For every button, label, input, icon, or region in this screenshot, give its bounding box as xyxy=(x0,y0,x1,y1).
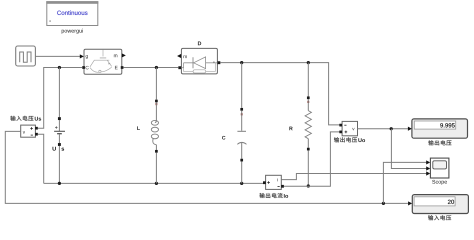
wire R bottom xyxy=(307,150,309,186)
resistor R xyxy=(305,63,311,151)
wire diode to output rail and VM Uo xyxy=(220,63,340,125)
node C-bus xyxy=(240,182,243,185)
label L xyxy=(137,126,140,130)
scope block xyxy=(430,158,449,178)
wire IGBT emitter to diode xyxy=(124,67,179,69)
label R xyxy=(289,127,292,131)
node battery-bus xyxy=(58,182,61,185)
label input-voltage Us xyxy=(10,116,15,121)
IGBT E port xyxy=(121,66,124,69)
label D xyxy=(198,41,201,45)
wire IGBT collector to Us+ and voltmeter xyxy=(38,68,82,129)
wire pulse generator to IGBT gate xyxy=(35,55,80,57)
node R Io-minus junction xyxy=(307,184,310,187)
diode cathode port xyxy=(217,61,220,64)
wire battery top xyxy=(58,68,60,118)
diode anode port xyxy=(178,66,181,69)
wire L top xyxy=(155,68,157,100)
label C xyxy=(222,136,225,140)
wire Io minus to R bottom and VM Uo minus xyxy=(284,132,341,186)
wire Us signal to display and scope xyxy=(5,131,408,203)
label display input-voltage xyxy=(428,215,433,220)
powergui block xyxy=(46,1,98,25)
pulse generator block xyxy=(16,46,36,66)
capacitor C xyxy=(237,63,246,162)
wire battery bottom xyxy=(58,146,60,184)
wire Uo signal xyxy=(358,128,409,130)
label display output-voltage xyxy=(428,140,433,145)
wire C bottom xyxy=(241,162,243,184)
diode m output port xyxy=(177,54,181,58)
IGBT m output port xyxy=(122,53,126,57)
wire VMus minus to ground bus xyxy=(38,134,44,183)
node Uo signal branch xyxy=(390,127,393,130)
wire Io signal to scope xyxy=(281,174,426,180)
inductor L xyxy=(151,100,158,153)
wire L bottom xyxy=(155,153,157,184)
node Us signal branch xyxy=(382,202,385,205)
node L-bus xyxy=(155,182,158,185)
node battery junction xyxy=(58,66,61,69)
DC voltage source Us xyxy=(54,117,65,146)
display output voltage 9.995 xyxy=(412,119,468,138)
powergui label xyxy=(62,29,83,34)
label Us xyxy=(53,147,56,151)
node switch node xyxy=(155,66,158,69)
node R branch xyxy=(307,61,310,64)
display input voltage 20 xyxy=(412,195,468,214)
label output-current Io xyxy=(260,193,265,198)
ammeter output current Io xyxy=(263,175,284,189)
diode D block xyxy=(177,48,220,74)
voltmeter output Uo xyxy=(339,121,357,135)
voltmeter input Us xyxy=(21,125,38,137)
IGBT C port xyxy=(82,66,85,69)
label output-voltage Uo xyxy=(334,137,339,142)
node cap branch xyxy=(240,61,243,64)
IGBT block xyxy=(82,49,126,74)
label Scope xyxy=(432,180,447,185)
wire ground bus xyxy=(44,182,264,184)
